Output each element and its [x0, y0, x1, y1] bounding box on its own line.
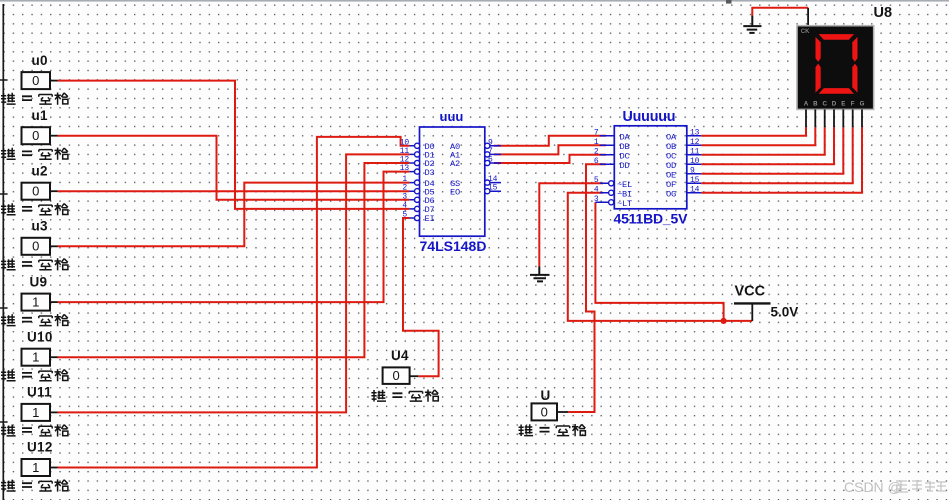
svg-text:VCC: VCC	[735, 284, 766, 300]
wire u1 to D6	[58, 136, 410, 200]
wire display D to OD	[701, 127, 834, 164]
svg-text:OE: OE	[666, 170, 676, 180]
display segment A	[819, 34, 854, 40]
ground (near ~EL)	[530, 267, 550, 282]
wire A1 to DB	[494, 145, 606, 154]
U2 right pin names	[666, 132, 677, 199]
svg-text:U9: U9	[30, 274, 48, 289]
svg-text:OD: OD	[666, 161, 676, 171]
display pins A-G	[806, 109, 862, 127]
svg-text:Uuuuuu: Uuuuuu	[623, 109, 676, 125]
wire display E to OE	[701, 127, 843, 174]
switch u0	[1, 53, 68, 105]
svg-text:4511BD_5V: 4511BD_5V	[614, 211, 689, 227]
svg-text:CK: CK	[801, 29, 810, 35]
display segment D	[819, 88, 854, 94]
svg-text:0: 0	[392, 368, 399, 383]
IC Uuuuuu 4511BD_5V BCD decoder	[614, 109, 689, 227]
display segment B	[852, 37, 857, 62]
wire DD to U	[568, 164, 606, 412]
wire ~LT to VCC	[595, 202, 723, 321]
wire display A to OA	[701, 127, 806, 136]
display segment F	[816, 37, 821, 62]
power VCC 5.0V	[734, 284, 798, 321]
svg-text:3: 3	[594, 195, 599, 204]
svg-text:~BI: ~BI	[617, 189, 632, 199]
wire u3 to D4	[58, 183, 410, 247]
wire ~EL to ground	[539, 183, 603, 266]
wire u0 to D7	[58, 81, 410, 209]
watermark CSDN	[844, 479, 946, 495]
wire EI to U4	[403, 218, 439, 376]
svg-text:U4: U4	[391, 348, 409, 363]
svg-text:3: 3	[402, 192, 407, 201]
svg-text:u2: u2	[32, 163, 48, 178]
sheet left border	[2, 4, 4, 500]
wire U11 to D1	[58, 154, 410, 412]
svg-text:9: 9	[690, 166, 695, 175]
svg-text:7: 7	[594, 128, 599, 137]
svg-text:DD: DD	[620, 161, 630, 171]
svg-text:15: 15	[690, 176, 700, 185]
wire CK to ground	[752, 8, 808, 16]
svg-text:U8: U8	[874, 5, 893, 21]
svg-text:10: 10	[690, 157, 700, 166]
svg-text:A2: A2	[450, 159, 460, 169]
svg-text:C: C	[822, 101, 827, 108]
wire CK pin stub	[807, 8, 809, 26]
svg-text:OF: OF	[666, 180, 676, 190]
svg-text:EI: EI	[425, 214, 435, 224]
svg-text:0: 0	[32, 128, 39, 143]
svg-text:OC: OC	[666, 151, 676, 161]
switch U	[519, 388, 586, 436]
svg-text:~EL: ~EL	[617, 180, 632, 190]
svg-text:5: 5	[402, 211, 407, 220]
svg-text:1: 1	[32, 350, 39, 365]
svg-text:U12: U12	[27, 440, 53, 455]
svg-text:6: 6	[594, 157, 599, 166]
wire U10 to D2	[58, 163, 410, 357]
svg-text:~LT: ~LT	[617, 199, 632, 209]
junction node VCC	[721, 318, 727, 324]
svg-text:1: 1	[32, 460, 39, 475]
svg-text:12: 12	[690, 138, 700, 147]
svg-text:D: D	[832, 101, 837, 108]
U2 right pin stubs	[687, 136, 702, 193]
switch U11	[1, 385, 68, 437]
U1 right pin stubs	[490, 146, 501, 191]
svg-text:U11: U11	[27, 385, 52, 400]
U2 4511 left pin stubs	[595, 136, 614, 203]
svg-text:11: 11	[690, 147, 700, 156]
svg-text:G: G	[860, 101, 865, 108]
U2 left pin names	[617, 132, 632, 209]
svg-text:74LS148D: 74LS148D	[420, 238, 487, 254]
svg-text:1: 1	[594, 138, 599, 147]
switch u1	[1, 108, 68, 160]
svg-text:2: 2	[594, 147, 599, 156]
svg-text:CSDN @: CSDN @	[844, 479, 902, 495]
U1 right pin names	[450, 142, 460, 197]
svg-text:13: 13	[400, 164, 410, 173]
svg-text:15: 15	[488, 184, 498, 193]
wire display G to OG	[701, 127, 862, 193]
switch U10	[1, 329, 68, 381]
U1 left pin names	[425, 142, 435, 224]
switch U4	[371, 348, 438, 402]
svg-text:B: B	[813, 101, 818, 108]
svg-text:DA: DA	[620, 132, 631, 142]
svg-text:5.0V: 5.0V	[771, 305, 799, 320]
switch u3	[1, 219, 68, 271]
svg-text:U10: U10	[27, 329, 53, 344]
svg-text:u3: u3	[32, 219, 49, 234]
svg-text:OG: OG	[666, 189, 676, 199]
wire ~BI to VCC	[568, 193, 753, 321]
svg-text:uuu: uuu	[440, 109, 464, 124]
svg-text:A: A	[804, 101, 809, 108]
svg-text:0: 0	[32, 73, 39, 88]
switch u2	[1, 163, 68, 215]
seven-seg display U8	[797, 5, 892, 109]
display segment C	[852, 64, 857, 93]
wire display B to OB	[701, 127, 815, 145]
display segment E	[816, 64, 821, 93]
svg-text:EO: EO	[450, 187, 460, 197]
svg-text:14: 14	[690, 185, 700, 194]
wire A0 to DA	[494, 136, 606, 146]
wire display C to OC	[701, 127, 824, 155]
svg-text:13: 13	[690, 128, 700, 137]
svg-text:DC: DC	[620, 151, 630, 161]
svg-text:1: 1	[32, 405, 39, 420]
svg-text:4: 4	[594, 185, 599, 194]
svg-text:0: 0	[541, 404, 548, 419]
switch U9	[1, 274, 68, 326]
U1 left pin numbers	[400, 138, 410, 219]
U2 right pin numbers	[690, 128, 700, 194]
svg-text:E: E	[841, 101, 845, 108]
wire display F to OF	[701, 127, 852, 183]
display pin letters	[804, 101, 865, 108]
svg-text:0: 0	[32, 184, 39, 199]
wire A2 to DC	[494, 155, 606, 163]
U1 right pin numbers	[488, 138, 498, 192]
svg-text:D3: D3	[425, 168, 435, 178]
svg-text:u0: u0	[32, 53, 48, 68]
svg-text:0: 0	[32, 239, 39, 254]
wire u2 to D5	[58, 190, 410, 192]
sheet top border	[0, 0, 949, 2]
svg-text:OA: OA	[666, 132, 677, 142]
U1 74LS148D left pin stubs	[409, 146, 414, 218]
ground (display CK)	[743, 16, 761, 33]
svg-text:1: 1	[32, 295, 39, 310]
wire U12 to D0	[58, 137, 410, 468]
wire U9 to D3	[58, 172, 410, 303]
svg-text:OB: OB	[666, 142, 676, 152]
svg-text:5: 5	[594, 176, 599, 185]
svg-text:F: F	[851, 101, 855, 108]
svg-text:DB: DB	[620, 142, 630, 152]
IC uuu 74LS148D priority encoder	[420, 109, 487, 254]
svg-text:U: U	[541, 388, 551, 403]
switch U12	[1, 440, 68, 492]
U2 left pin numbers	[594, 128, 599, 204]
svg-text:4: 4	[402, 201, 407, 210]
svg-text:u1: u1	[32, 108, 49, 123]
svg-text:6: 6	[488, 156, 493, 165]
